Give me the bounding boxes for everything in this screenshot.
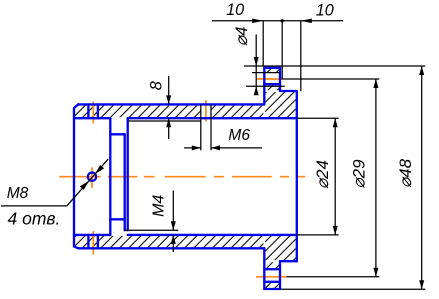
M8 hole circle — [88, 173, 96, 181]
inner vertical B thread start — [127, 118, 129, 230]
phi48 top arrow up — [419, 66, 424, 75]
flange divider 2 bottom — [97, 235, 99, 248]
hatch right flange upper block — [265, 92, 296, 117]
svg-text:М6: М6 — [228, 127, 250, 144]
phi4 dimension line — [255, 34, 257, 93]
bore top right segment — [128, 117, 297, 119]
phi24 dimension line — [334, 118, 336, 235]
phi4 upper arrow down — [254, 57, 259, 66]
phi24 top extension — [297, 117, 339, 119]
counterbore end face — [109, 118, 111, 235]
M8 leader diagonal — [67, 159, 108, 206]
bottom phi4 hole bottom edge — [264, 281, 280, 283]
step top — [280, 90, 297, 92]
part outline blue — [74, 68, 297, 289]
hatch strip above bottom phi4 hole — [265, 262, 279, 268]
phi4 lower arrow up — [254, 86, 259, 95]
dim 8 upper shaft — [168, 76, 170, 104]
phi4 hole right vertical bottom — [279, 261, 281, 289]
phi24 bottom extension — [297, 234, 339, 236]
inner vertical A — [124, 134, 126, 230]
phi29 bottom arrow down — [373, 268, 378, 277]
bottom phi4 hole top edge — [264, 268, 280, 270]
dim8 upper arrow down — [166, 95, 171, 104]
bore bottom right segment — [128, 234, 297, 236]
flange divider 1 bottom — [87, 235, 89, 248]
bore bottom left segment — [74, 234, 110, 236]
thread line top — [128, 120, 201, 122]
M6 hole centerline — [205, 100, 207, 121]
flange bottom — [264, 288, 280, 290]
top left chamfer — [74, 104, 78, 108]
M8 leader lower arrow pointing up-right — [80, 181, 89, 190]
phi4 hole right vertical top — [279, 68, 281, 91]
svg-text:4 отв.: 4 отв. — [8, 209, 61, 229]
boss top — [264, 67, 280, 69]
hatch strip below bottom phi4 hole — [265, 283, 279, 288]
groove bottom horizontal — [110, 218, 124, 220]
arrowheads — [80, 19, 424, 290]
bottom outer face — [78, 247, 264, 249]
flange divider 2 top — [97, 104, 99, 118]
phi48 dimension line — [421, 66, 423, 289]
phi29 top extension — [282, 78, 380, 80]
top phi4 hole centerline — [256, 78, 283, 80]
flange left face lower — [263, 248, 265, 289]
M6 dim left shaft — [184, 147, 201, 149]
top phi4 hole bottom edge — [264, 83, 280, 85]
flange divider 1 top — [87, 104, 89, 118]
M8 leader shelf — [1, 205, 67, 207]
M4 dim upper shaft — [172, 191, 174, 231]
svg-text:М8: М8 — [7, 185, 29, 202]
M8 leader upper arrow pointing down-left — [95, 165, 104, 174]
groove top horizontal — [110, 133, 124, 135]
right face — [296, 91, 298, 261]
bottom left chamfer — [74, 246, 78, 248]
bore top left segment — [74, 117, 110, 119]
hatch top band right of M6 hole — [211, 105, 263, 117]
M6 hole right edge — [210, 104, 212, 150]
dim 8 lower shaft — [168, 118, 170, 139]
step bottom — [280, 260, 297, 262]
flange left face upper — [263, 68, 265, 105]
top chain arrow right-pointing at x263 — [252, 19, 263, 24]
phi24 top arrow up — [333, 118, 338, 127]
hatch right flange lower block — [265, 236, 296, 260]
top chain dimension line — [212, 20, 343, 22]
svg-text:⌀24: ⌀24 — [313, 160, 332, 189]
M6 hole left edge — [200, 104, 202, 150]
bolt hole centerline mark bottom band — [92, 231, 94, 255]
svg-text:8: 8 — [148, 80, 166, 90]
svg-text:⌀4: ⌀4 — [232, 27, 251, 47]
top outer face — [78, 103, 264, 105]
phi29 dimension line — [375, 79, 377, 277]
svg-text:М4: М4 — [150, 195, 167, 217]
top dim extension 3 — [300, 21, 302, 91]
bolt hole centerline mark top band — [92, 102, 94, 124]
svg-text:10: 10 — [316, 2, 334, 20]
main axis centerline — [59, 176, 305, 178]
top dim extension 1 — [262, 21, 264, 67]
hatch bottom band — [75, 236, 263, 247]
shared top extension phi4 phi48 — [244, 65, 425, 67]
hatch boss strip below phi4 hole — [265, 85, 279, 90]
svg-text:⌀29: ⌀29 — [349, 159, 368, 189]
M6 right arrow left — [211, 145, 220, 150]
top dim extension 2 — [281, 21, 283, 79]
M4 dim lower shaft — [172, 235, 174, 252]
M8 hole vertical centerline — [91, 167, 93, 188]
M4 lower arrow up — [171, 235, 176, 244]
dim8 lower arrow up — [166, 118, 171, 127]
svg-text:⌀48: ⌀48 — [396, 158, 415, 188]
svg-text:10: 10 — [226, 1, 244, 19]
top chain dot at x282 — [281, 19, 284, 22]
phi48 bottom arrow down — [419, 280, 424, 289]
phi48 bottom extension — [281, 288, 426, 290]
phi24 bottom arrow down — [333, 226, 338, 235]
phi4 lower extension — [246, 85, 285, 87]
bottom phi4 hole centerline — [256, 276, 286, 278]
phi29 bottom extension — [286, 276, 379, 278]
top chain arrow left-pointing at x301 — [301, 19, 312, 24]
M6 left arrow right — [192, 145, 201, 150]
M4 upper arrow down — [171, 221, 176, 230]
hatch top band left of M6 hole — [75, 105, 201, 117]
phi29 top arrow up — [373, 79, 378, 88]
top phi4 hole top edge thin — [252, 72, 280, 74]
hatch boss strip above phi4 hole — [265, 69, 279, 72]
thread line bottom / M4 extension — [125, 229, 179, 231]
left face — [73, 108, 75, 246]
M6 dim right shaft — [211, 147, 262, 149]
